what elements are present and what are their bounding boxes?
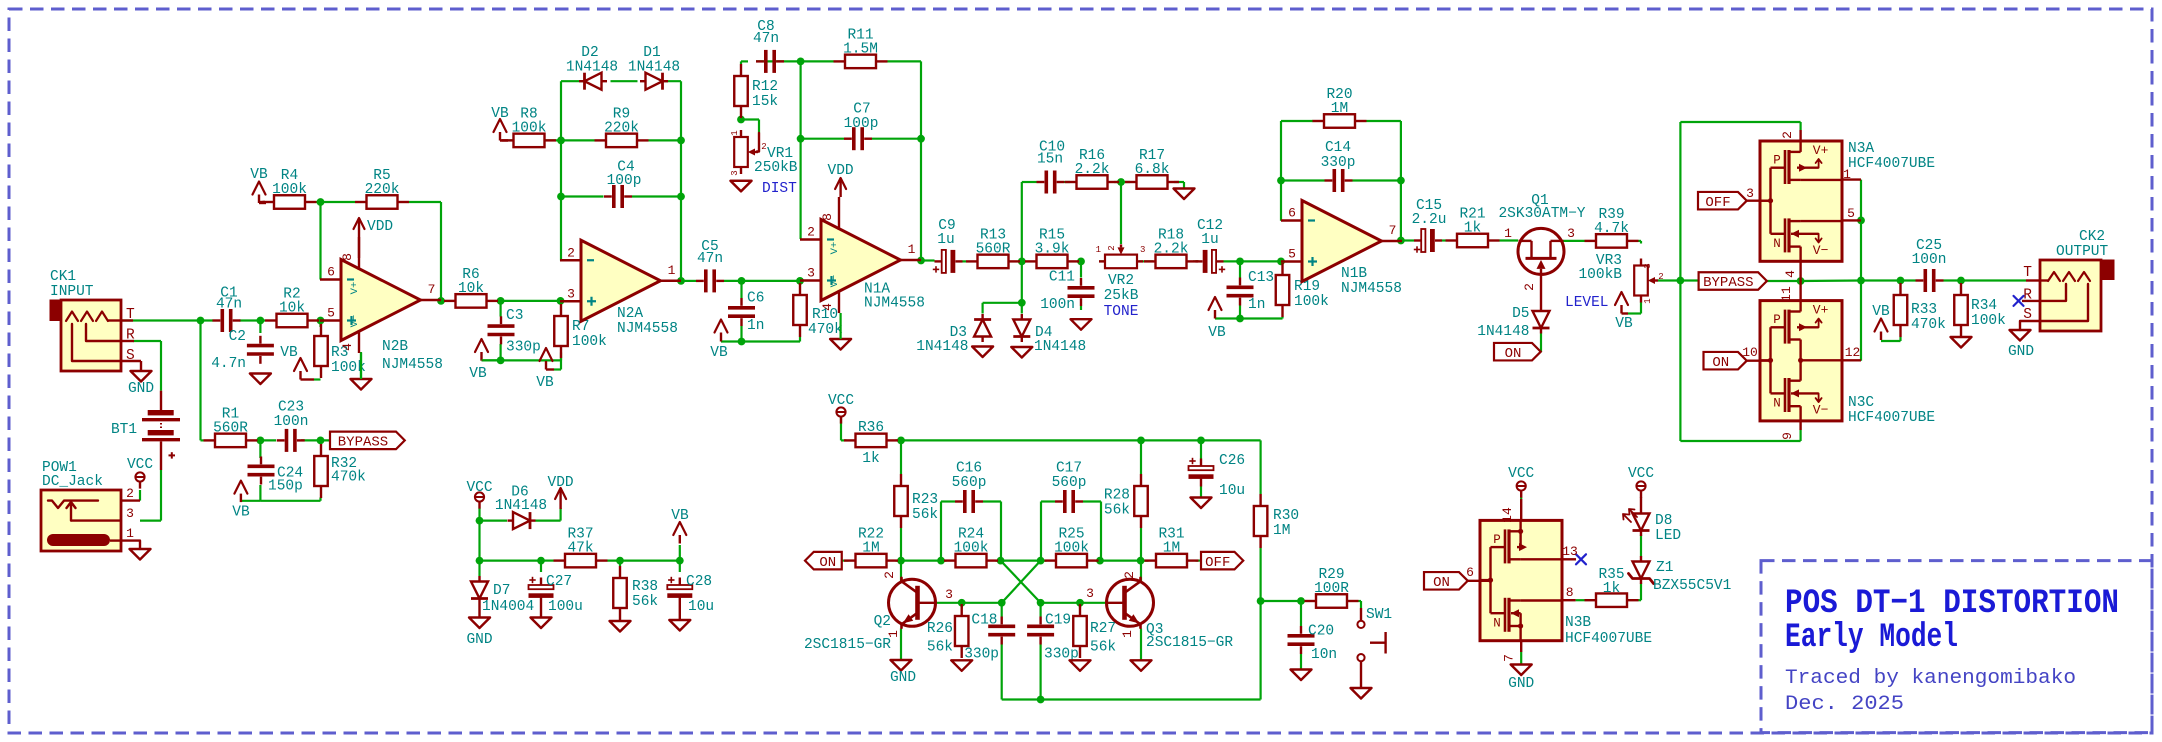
svg-text:Q2: Q2: [874, 614, 891, 630]
svg-text:BYPASS: BYPASS: [1703, 275, 1753, 291]
svg-text:8: 8: [820, 213, 835, 221]
svg-text:P: P: [1493, 533, 1501, 547]
svg-text:ON: ON: [819, 555, 836, 571]
svg-text:9: 9: [1780, 432, 1795, 440]
svg-text:Early Model: Early Model: [1785, 619, 1958, 657]
svg-text:100n: 100n: [274, 414, 309, 430]
svg-text:VB: VB: [710, 345, 728, 361]
svg-text:GND: GND: [128, 381, 154, 397]
svg-text:R23: R23: [912, 492, 938, 508]
svg-text:SW1: SW1: [1366, 607, 1392, 623]
svg-text:56k: 56k: [1090, 640, 1116, 656]
svg-text:V−: V−: [1813, 403, 1829, 418]
svg-text:470k: 470k: [1911, 317, 1946, 333]
svg-text:2.2k: 2.2k: [1075, 162, 1110, 178]
svg-text:1.5M: 1.5M: [843, 41, 878, 57]
svg-text:1: 1: [126, 526, 134, 541]
svg-text:C26: C26: [1219, 453, 1245, 469]
svg-text:DIST: DIST: [762, 181, 797, 197]
svg-text:100k: 100k: [954, 541, 989, 557]
svg-text:1N4148: 1N4148: [916, 339, 968, 355]
svg-text:1u: 1u: [1201, 232, 1218, 248]
svg-text:2: 2: [807, 225, 815, 240]
svg-text:V+: V+: [829, 242, 841, 255]
svg-text:1M: 1M: [862, 541, 879, 557]
svg-text:R: R: [126, 328, 135, 344]
svg-text:N2B: N2B: [382, 339, 408, 355]
svg-text:3: 3: [567, 286, 575, 301]
svg-text:8: 8: [1566, 585, 1574, 600]
svg-text:TONE: TONE: [1104, 304, 1139, 320]
svg-text:V−: V−: [829, 275, 841, 288]
svg-text:D8: D8: [1655, 513, 1672, 529]
svg-text:LED: LED: [1655, 528, 1681, 544]
svg-text:47n: 47n: [753, 31, 779, 47]
svg-text:VCC: VCC: [466, 480, 492, 496]
svg-text:V+: V+: [1813, 303, 1829, 318]
svg-text:1N4148: 1N4148: [1477, 324, 1529, 340]
svg-text:V−: V−: [349, 315, 361, 328]
svg-text:VB: VB: [1208, 325, 1226, 341]
svg-text:NJM4558: NJM4558: [382, 357, 443, 373]
svg-text:1M: 1M: [1163, 541, 1180, 557]
svg-text:1M: 1M: [1273, 523, 1290, 539]
svg-text:OFF: OFF: [1205, 555, 1230, 571]
svg-text:1k: 1k: [1464, 221, 1481, 237]
svg-text:VCC: VCC: [828, 393, 854, 409]
svg-text:BT1: BT1: [111, 422, 137, 438]
svg-text:LEVEL: LEVEL: [1565, 295, 1609, 311]
svg-text:HCF4007UBE: HCF4007UBE: [1848, 410, 1935, 426]
svg-text:N1B: N1B: [1341, 266, 1367, 282]
svg-text:VCC: VCC: [1628, 466, 1654, 482]
svg-text:NJM4558: NJM4558: [617, 321, 678, 337]
svg-text:Z1: Z1: [1656, 560, 1673, 576]
svg-text:1N4148: 1N4148: [1034, 339, 1086, 355]
svg-text:T: T: [126, 307, 135, 323]
svg-text:C18: C18: [971, 613, 997, 629]
svg-text:GND: GND: [2008, 344, 2034, 360]
svg-text:12: 12: [1845, 345, 1861, 360]
svg-text:8: 8: [340, 253, 355, 261]
svg-text:1: 1: [1504, 226, 1512, 241]
svg-text:150p: 150p: [268, 479, 303, 495]
svg-text:R34: R34: [1971, 298, 1997, 314]
svg-text:10u: 10u: [688, 599, 714, 615]
svg-text:1N4148: 1N4148: [628, 60, 680, 76]
svg-text:220k: 220k: [604, 120, 639, 136]
svg-text:N: N: [1493, 616, 1501, 630]
svg-text:560R: 560R: [213, 420, 248, 436]
svg-text:1: 1: [730, 130, 740, 135]
svg-text:BZX55C5V1: BZX55C5V1: [1653, 578, 1731, 594]
svg-text:5: 5: [1847, 206, 1855, 221]
svg-text:100k: 100k: [1294, 294, 1329, 310]
svg-text:2SK30ATM−Y: 2SK30ATM−Y: [1498, 206, 1585, 222]
svg-text:V−: V−: [1813, 243, 1829, 258]
svg-text:4: 4: [820, 303, 835, 311]
svg-text:VB: VB: [250, 167, 268, 183]
svg-text:3: 3: [1140, 245, 1145, 255]
svg-text:2: 2: [1658, 272, 1663, 282]
svg-text:VB: VB: [536, 375, 554, 391]
svg-text:HCF4007UBE: HCF4007UBE: [1848, 156, 1935, 172]
svg-text:GND: GND: [890, 670, 916, 686]
svg-text:VR2: VR2: [1108, 273, 1134, 289]
svg-text:10k: 10k: [279, 301, 305, 317]
svg-text:10u: 10u: [1219, 483, 1245, 499]
svg-text:100k: 100k: [512, 120, 547, 136]
svg-text:R30: R30: [1273, 508, 1299, 524]
svg-text:VCC: VCC: [1508, 466, 1534, 482]
svg-text:47n: 47n: [697, 251, 723, 267]
svg-text:6: 6: [327, 265, 335, 280]
svg-text:C11: C11: [1049, 270, 1075, 286]
svg-text:2: 2: [1780, 131, 1795, 139]
svg-text:1: 1: [668, 263, 676, 278]
svg-text:1N4148: 1N4148: [495, 498, 547, 514]
svg-text:100u: 100u: [548, 599, 583, 615]
svg-text:100k: 100k: [572, 334, 607, 350]
svg-text:R36: R36: [858, 420, 884, 436]
svg-text:2: 2: [1522, 283, 1537, 291]
svg-text:3: 3: [1567, 226, 1575, 241]
svg-text:1k: 1k: [862, 451, 879, 467]
svg-text:VB: VB: [491, 106, 509, 122]
svg-text:220k: 220k: [365, 182, 400, 198]
svg-text:56k: 56k: [632, 594, 658, 610]
svg-text:C3: C3: [506, 308, 523, 324]
svg-text:2.2k: 2.2k: [1154, 241, 1189, 257]
svg-text:V+: V+: [1813, 143, 1829, 158]
svg-text:2: 2: [882, 571, 897, 579]
svg-text:330p: 330p: [506, 340, 541, 356]
svg-text:1: 1: [1643, 298, 1653, 303]
svg-text:2: 2: [1107, 245, 1117, 250]
svg-text:C2: C2: [229, 329, 246, 345]
svg-text:1: 1: [1120, 630, 1135, 638]
svg-text:CK1: CK1: [50, 269, 76, 285]
svg-text:R27: R27: [1090, 621, 1116, 637]
svg-text:14: 14: [1500, 507, 1515, 523]
svg-text:13: 13: [1562, 544, 1578, 559]
svg-text:2SC1815−GR: 2SC1815−GR: [804, 637, 891, 653]
svg-text:C27: C27: [546, 574, 572, 590]
svg-text:100p: 100p: [607, 173, 642, 189]
svg-text:10n: 10n: [1311, 647, 1337, 663]
svg-text:1n: 1n: [747, 318, 764, 334]
svg-text:P: P: [1773, 313, 1781, 327]
svg-text:7: 7: [1389, 223, 1397, 238]
svg-text:P: P: [1773, 154, 1781, 168]
svg-text:2: 2: [761, 142, 766, 152]
svg-text:Traced by kanengomibako: Traced by kanengomibako: [1785, 667, 2076, 690]
svg-text:4.7n: 4.7n: [211, 356, 246, 372]
svg-text:470k: 470k: [808, 322, 843, 338]
svg-text:VB: VB: [232, 505, 250, 521]
svg-text:VDD: VDD: [548, 475, 574, 491]
svg-text:DC_Jack: DC_Jack: [42, 474, 103, 490]
svg-text:VB: VB: [469, 366, 487, 382]
svg-text:GND: GND: [1508, 676, 1534, 692]
svg-text:1N4148: 1N4148: [566, 60, 618, 76]
svg-text:NJM4558: NJM4558: [864, 296, 925, 312]
svg-text:D7: D7: [493, 583, 510, 599]
svg-text:NJM4558: NJM4558: [1341, 281, 1402, 297]
svg-text:D5: D5: [1512, 306, 1529, 322]
svg-text:HCF4007UBE: HCF4007UBE: [1565, 631, 1652, 647]
svg-text:560p: 560p: [1052, 475, 1087, 491]
svg-text:15k: 15k: [752, 94, 778, 110]
svg-text:100p: 100p: [844, 116, 879, 132]
svg-text:100k: 100k: [272, 182, 307, 198]
svg-text:3.9k: 3.9k: [1035, 241, 1070, 257]
svg-text:BYPASS: BYPASS: [338, 435, 388, 451]
svg-text:560R: 560R: [976, 241, 1011, 257]
svg-text:56k: 56k: [927, 640, 953, 656]
svg-text:N3C: N3C: [1848, 395, 1874, 411]
svg-text:100n: 100n: [1040, 297, 1075, 313]
svg-text:4.7k: 4.7k: [1594, 221, 1629, 237]
svg-text:OUTPUT: OUTPUT: [2056, 244, 2109, 260]
svg-text:N2A: N2A: [617, 306, 643, 322]
svg-text:C20: C20: [1308, 624, 1334, 640]
svg-text:C14: C14: [1325, 140, 1351, 156]
svg-text:100kB: 100kB: [1578, 267, 1622, 283]
svg-text:100n: 100n: [1912, 252, 1947, 268]
svg-text:6: 6: [1288, 206, 1296, 221]
svg-text:2SC1815−GR: 2SC1815−GR: [1146, 635, 1233, 651]
svg-text:1: 1: [1096, 245, 1101, 255]
svg-text:2: 2: [567, 245, 575, 260]
svg-text:330p: 330p: [1321, 155, 1356, 171]
svg-text:2: 2: [126, 486, 134, 501]
svg-text:5: 5: [1288, 247, 1296, 262]
svg-text:VB: VB: [280, 345, 298, 361]
svg-text:2: 2: [1122, 571, 1137, 579]
svg-text:N: N: [1773, 397, 1781, 411]
svg-text:C28: C28: [686, 574, 712, 590]
svg-text:3: 3: [1746, 186, 1754, 201]
svg-text:R19: R19: [1294, 279, 1320, 295]
svg-text:V+: V+: [349, 282, 361, 295]
svg-text:7: 7: [1502, 654, 1517, 662]
svg-text:C19: C19: [1045, 613, 1071, 629]
svg-text:2.2u: 2.2u: [1412, 212, 1447, 228]
svg-text:N3B: N3B: [1565, 615, 1591, 631]
svg-text:POS DT−1 DISTORTION: POS DT−1 DISTORTION: [1785, 585, 2119, 623]
svg-text:47n: 47n: [216, 297, 242, 313]
svg-text:11: 11: [1779, 286, 1794, 302]
svg-text:1n: 1n: [1248, 297, 1265, 313]
svg-text:R38: R38: [632, 579, 658, 595]
svg-text:R28: R28: [1104, 488, 1130, 504]
svg-text:1: 1: [1843, 167, 1851, 182]
svg-text:7: 7: [428, 282, 436, 297]
svg-text:VB: VB: [1615, 316, 1633, 332]
svg-text:470k: 470k: [331, 470, 366, 486]
svg-text:3: 3: [807, 266, 815, 281]
svg-text:3: 3: [730, 170, 740, 175]
svg-text:CK2: CK2: [2079, 229, 2105, 245]
svg-text:VDD: VDD: [367, 219, 393, 235]
svg-text:6: 6: [1466, 565, 1474, 580]
svg-text:C6: C6: [747, 291, 764, 307]
svg-text:VCC: VCC: [127, 457, 153, 473]
svg-text:R26: R26: [927, 621, 953, 637]
svg-text:VDD: VDD: [828, 163, 854, 179]
svg-text:3: 3: [126, 506, 134, 521]
svg-text:VB: VB: [1872, 304, 1890, 320]
svg-text:ON: ON: [1505, 346, 1522, 362]
svg-text:VB: VB: [671, 508, 689, 524]
svg-text:1N4004: 1N4004: [482, 599, 534, 615]
svg-text:56k: 56k: [1104, 503, 1130, 519]
svg-text:15n: 15n: [1037, 152, 1063, 168]
svg-text:1: 1: [908, 242, 916, 257]
svg-text:3: 3: [1086, 586, 1094, 601]
svg-text:ON: ON: [1712, 355, 1729, 371]
svg-text:6.8k: 6.8k: [1135, 162, 1170, 178]
svg-text:N: N: [1773, 237, 1781, 251]
svg-text:560p: 560p: [952, 475, 987, 491]
svg-text:100k: 100k: [1971, 313, 2006, 329]
svg-text:GND: GND: [466, 632, 492, 648]
svg-text:250kB: 250kB: [754, 160, 798, 176]
svg-text:ON: ON: [1433, 575, 1450, 591]
svg-text:C13: C13: [1248, 270, 1274, 286]
svg-text:100k: 100k: [1054, 541, 1089, 557]
svg-text:OFF: OFF: [1705, 195, 1730, 211]
svg-text:3: 3: [1643, 263, 1653, 268]
svg-text:1k: 1k: [1603, 581, 1620, 597]
svg-text:1M: 1M: [1331, 101, 1348, 117]
svg-text:1: 1: [886, 630, 901, 638]
svg-text:56k: 56k: [912, 507, 938, 523]
svg-text:Dec. 2025: Dec. 2025: [1785, 693, 1904, 716]
svg-text:25kB: 25kB: [1104, 288, 1139, 304]
svg-text:3: 3: [945, 587, 953, 602]
svg-text:100R: 100R: [1314, 581, 1349, 597]
svg-text:R33: R33: [1911, 302, 1937, 318]
svg-text:1u: 1u: [937, 232, 954, 248]
svg-text:10k: 10k: [458, 281, 484, 297]
svg-text:4: 4: [340, 343, 355, 351]
svg-text:N3A: N3A: [1848, 141, 1874, 157]
svg-text:5: 5: [327, 306, 335, 321]
svg-text:47k: 47k: [567, 541, 593, 557]
svg-text:4: 4: [1783, 270, 1798, 278]
svg-text:T: T: [2023, 265, 2032, 281]
svg-text:INPUT: INPUT: [50, 284, 94, 300]
svg-text:R12: R12: [752, 79, 778, 95]
